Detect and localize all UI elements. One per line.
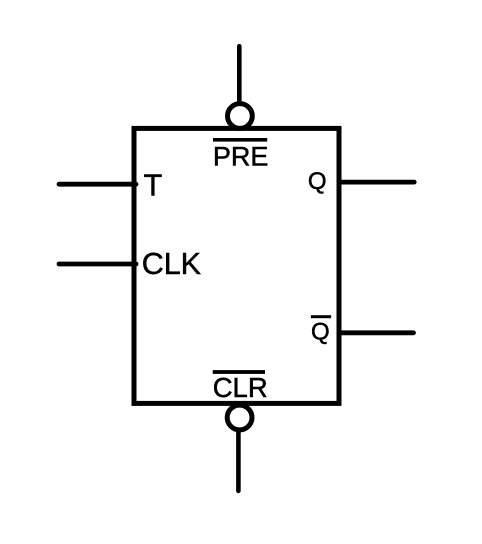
pin label CLK	[142, 247, 201, 281]
bubble (active-low PRE)	[228, 104, 253, 129]
wire Q output	[341, 180, 414, 185]
pin label Q	[308, 168, 327, 195]
flip-flop body U1	[134, 128, 339, 403]
svg-text:PRE: PRE	[213, 141, 269, 171]
bubble (active-low CLR)	[227, 405, 252, 430]
svg-text:CLK: CLK	[142, 247, 201, 281]
overline of CLR	[213, 370, 265, 374]
wire PRE input (top vertical)	[237, 46, 242, 103]
wire T input	[59, 182, 136, 187]
svg-text:T: T	[144, 169, 163, 203]
pin label T	[144, 169, 163, 203]
wire CLR input (bottom vertical)	[236, 431, 241, 491]
svg-text:CLR: CLR	[213, 372, 268, 403]
svg-text:Q: Q	[311, 318, 330, 345]
overline of Q-bar	[311, 315, 331, 318]
pin label CLR	[213, 372, 268, 403]
pin label Q-bar	[311, 318, 330, 345]
pin label PRE	[213, 141, 269, 171]
wire CLK input	[59, 262, 136, 267]
svg-text:Q: Q	[308, 168, 327, 195]
overline of PRE	[213, 138, 267, 142]
wire Q-bar output	[341, 330, 414, 335]
